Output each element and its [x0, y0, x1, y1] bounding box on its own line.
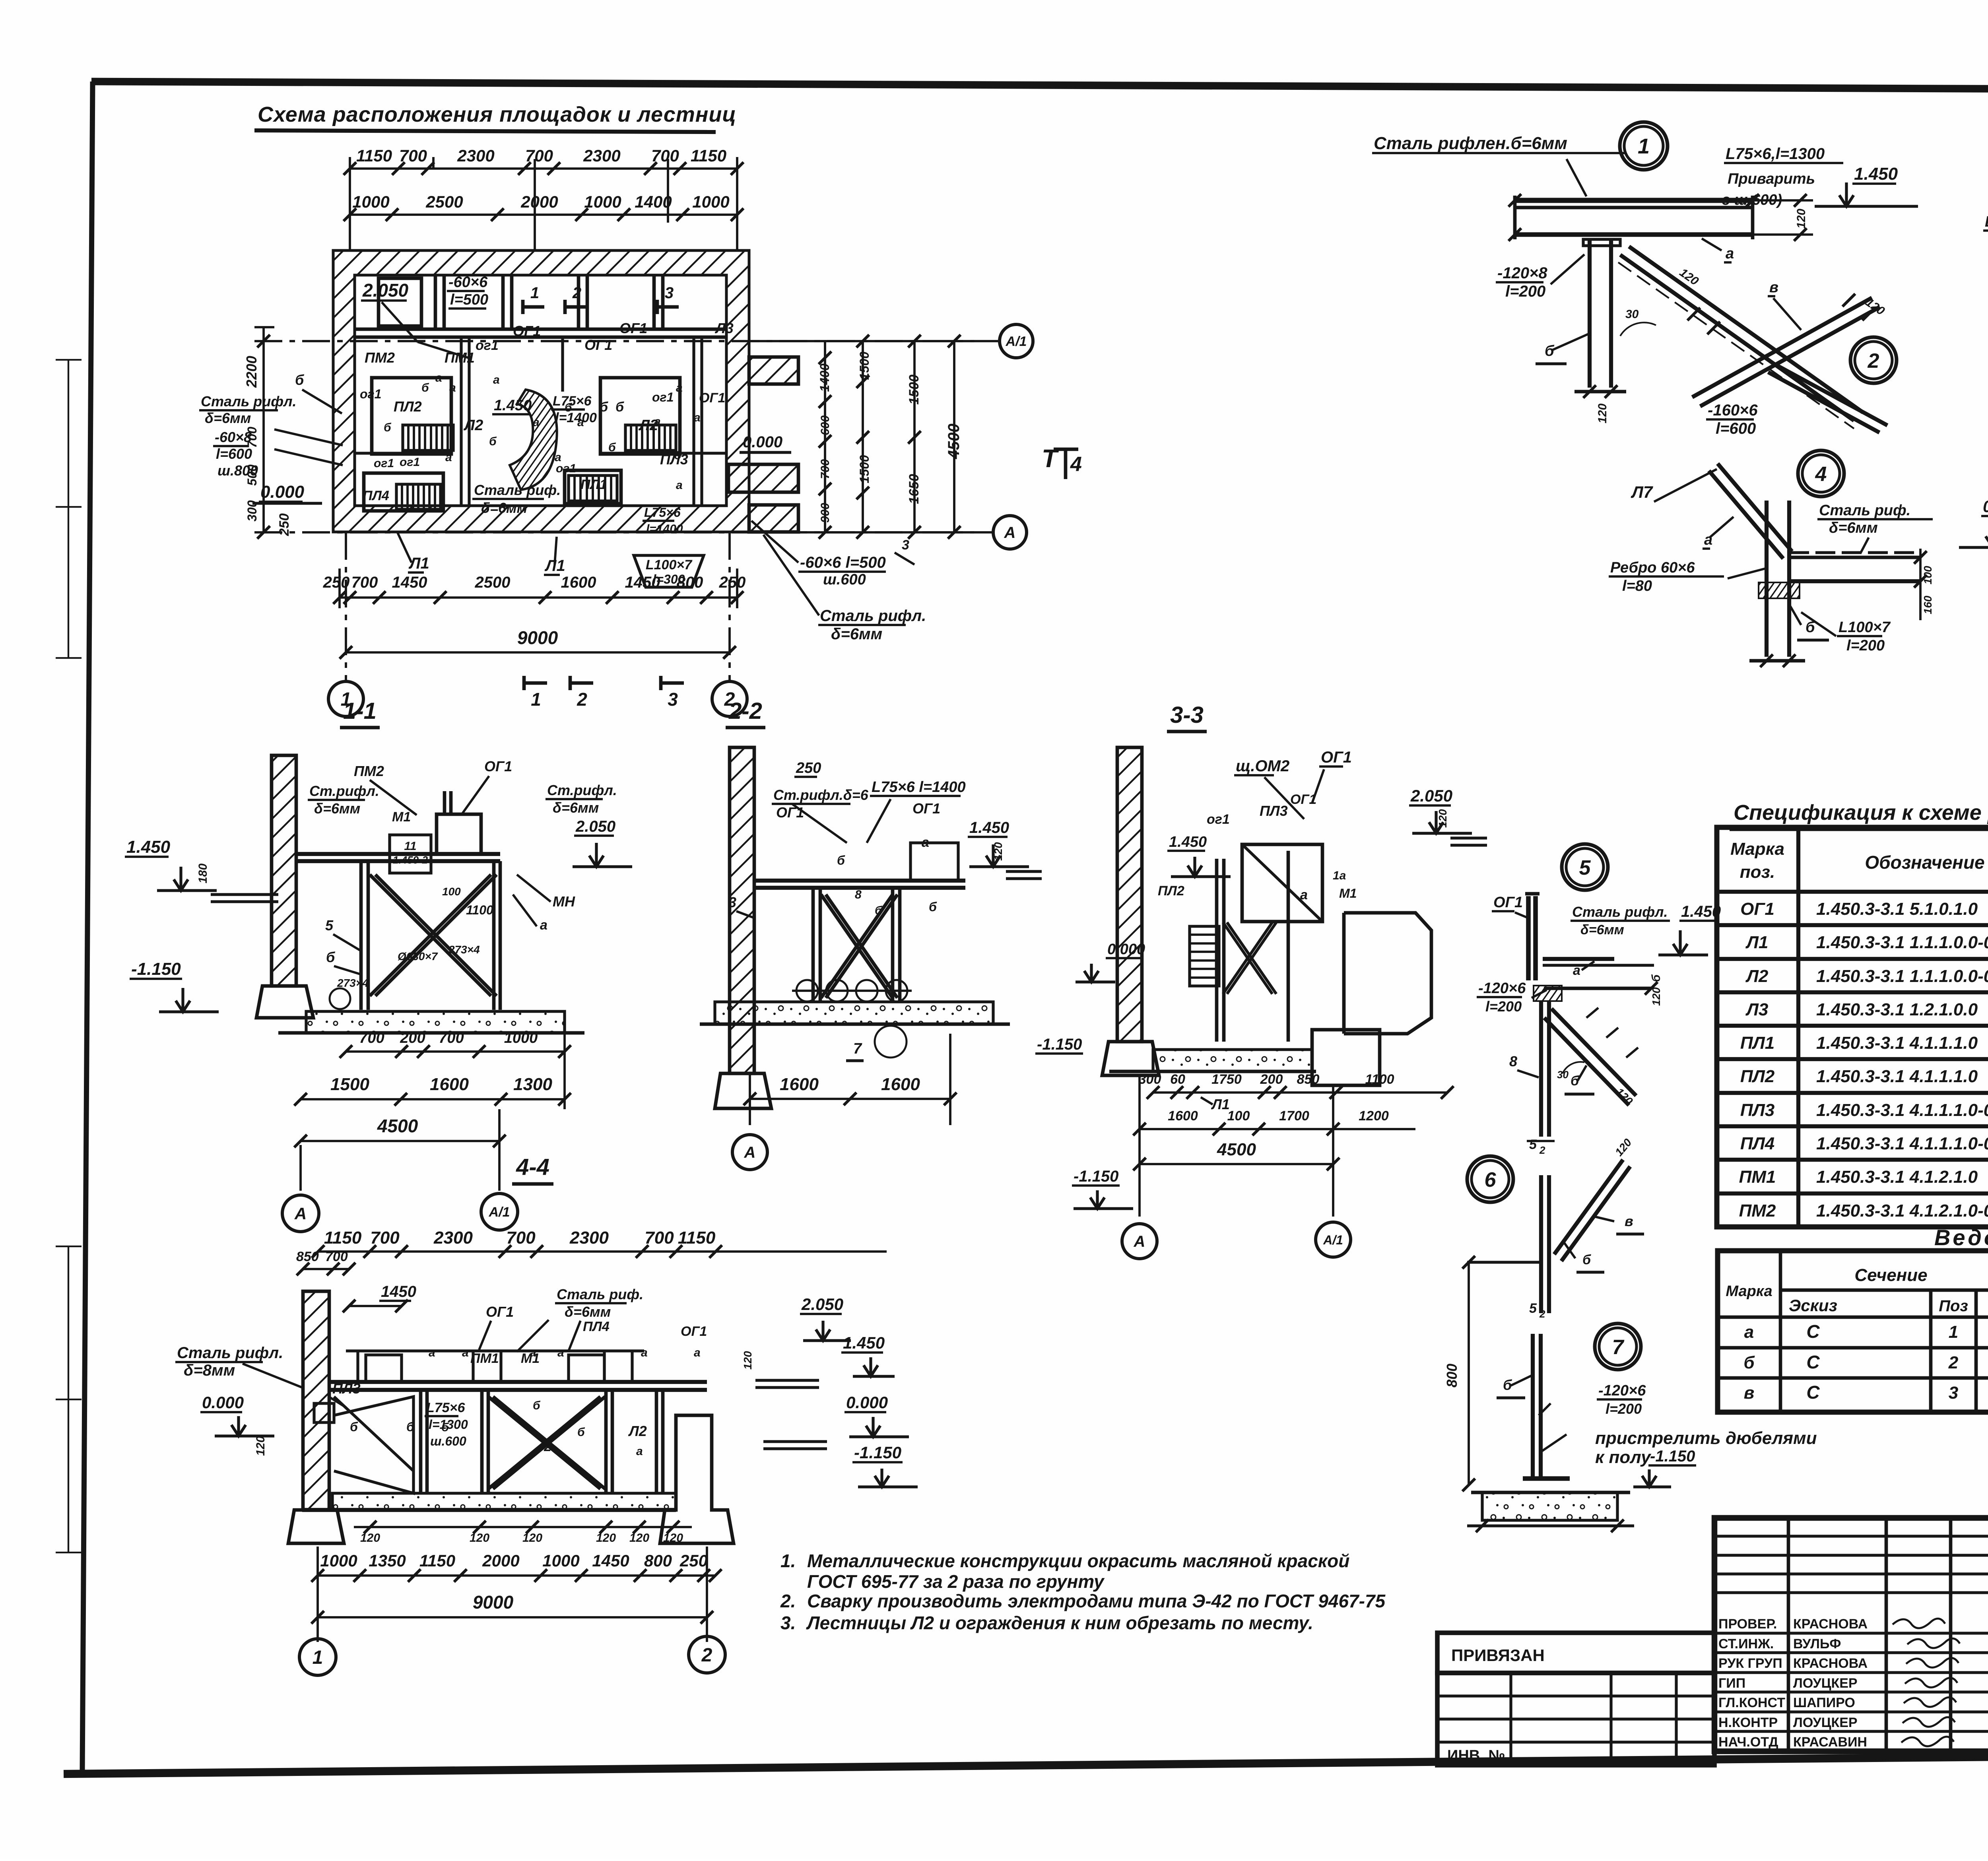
svg-text:-120×8: -120×8	[1497, 264, 1547, 282]
svg-text:2300: 2300	[569, 1228, 609, 1248]
svg-text:2000: 2000	[520, 192, 558, 211]
svg-text:2300: 2300	[457, 146, 494, 165]
svg-text:800: 800	[1444, 1364, 1460, 1388]
svg-text:2.050: 2.050	[575, 818, 615, 835]
svg-text:а: а	[1573, 963, 1580, 978]
svg-text:-1.150: -1.150	[1650, 1448, 1695, 1465]
svg-text:5: 5	[1529, 1301, 1537, 1316]
svg-text:а: а	[555, 451, 561, 464]
svg-text:1.: 1.	[780, 1551, 796, 1571]
svg-text:60: 60	[1170, 1072, 1185, 1087]
svg-text:а: а	[676, 381, 683, 394]
svg-text:3.: 3.	[780, 1613, 796, 1633]
svg-text:1а: 1а	[1333, 869, 1346, 882]
svg-text:ОГ1: ОГ1	[681, 1324, 707, 1339]
svg-text:L75×6: L75×6	[553, 394, 592, 409]
svg-text:l=500: l=500	[450, 291, 488, 308]
svg-text:Л3: Л3	[1745, 1000, 1769, 1019]
svg-text:1600: 1600	[881, 1075, 920, 1094]
svg-text:1: 1	[531, 689, 541, 710]
svg-text:Поз: Поз	[1939, 1297, 1968, 1315]
svg-text:1500: 1500	[907, 375, 922, 405]
svg-text:ОГ1: ОГ1	[1290, 792, 1316, 807]
svg-text:б: б	[421, 381, 429, 394]
svg-text:б: б	[350, 1420, 358, 1434]
svg-text:120: 120	[522, 1531, 542, 1545]
svg-text:-1.150: -1.150	[1074, 1168, 1118, 1185]
svg-text:а: а	[462, 1346, 469, 1359]
svg-text:пристрелить дюбелями: пристрелить дюбелями	[1595, 1428, 1817, 1448]
svg-text:НАЧ.ОТД: НАЧ.ОТД	[1718, 1735, 1778, 1750]
svg-text:9000: 9000	[473, 1592, 514, 1613]
svg-text:1.450.3-3.1 1.1.1.0.0-06: 1.450.3-3.1 1.1.1.0.0-06	[1816, 966, 1988, 986]
svg-text:ог1: ог1	[1207, 812, 1230, 827]
svg-text:2500: 2500	[475, 574, 511, 591]
svg-text:0.000: 0.000	[202, 1393, 244, 1412]
svg-text:30: 30	[1625, 308, 1639, 321]
svg-text:в: в	[1769, 279, 1778, 296]
svg-text:а: а	[577, 416, 584, 429]
svg-text:5: 5	[325, 917, 334, 933]
svg-text:М1: М1	[392, 809, 411, 825]
svg-text:Ст.рифл.: Ст.рифл.	[309, 783, 379, 799]
svg-text:к полу: к полу	[1595, 1448, 1652, 1467]
svg-text:Сталь рифл.: Сталь рифл.	[201, 393, 296, 409]
svg-text:Сталь риф.: Сталь риф.	[557, 1286, 643, 1302]
svg-text:2.050: 2.050	[801, 1295, 843, 1314]
svg-text:ПМ1: ПМ1	[470, 1351, 499, 1366]
svg-text:δ=6мм: δ=6мм	[831, 625, 882, 643]
svg-text:2.: 2.	[780, 1591, 796, 1611]
svg-text:КРАСНОВА: КРАСНОВА	[1793, 1616, 1868, 1632]
svg-text:1350: 1350	[369, 1551, 406, 1570]
svg-text:1.450.3-3.1 4.1.1.1.0: 1.450.3-3.1 4.1.1.1.0	[1816, 1067, 1978, 1086]
svg-text:700: 700	[819, 459, 832, 479]
svg-text:Сталь рифл.: Сталь рифл.	[820, 607, 926, 625]
svg-text:1.450.3-3.1 4.1.1.1.0-01: 1.450.3-3.1 4.1.1.1.0-01	[1816, 1100, 1988, 1120]
svg-text:700: 700	[359, 1030, 384, 1046]
svg-text:Ребро 60×6: Ребро 60×6	[1610, 559, 1695, 576]
svg-text:ПРИВЯЗАН: ПРИВЯЗАН	[1451, 1646, 1545, 1665]
svg-text:в: в	[1625, 1213, 1633, 1229]
svg-text:4-4: 4-4	[516, 1154, 549, 1180]
svg-text:а: а	[694, 411, 701, 424]
svg-text:2.050: 2.050	[362, 280, 409, 301]
svg-text:б: б	[1571, 1073, 1579, 1089]
svg-text:Лестницы Л2 и ограждения к ним: Лестницы Л2 и ограждения к ним обрезать …	[806, 1613, 1313, 1633]
svg-text:2300: 2300	[583, 146, 620, 165]
svg-text:1.450.3-3.1 4.1.1.1.0: 1.450.3-3.1 4.1.1.1.0	[1816, 1033, 1978, 1053]
svg-text:0.000: 0.000	[846, 1393, 888, 1412]
svg-text:700: 700	[399, 146, 427, 165]
svg-text:ОГ1: ОГ1	[513, 323, 541, 339]
svg-text:250: 250	[719, 574, 746, 591]
svg-text:30: 30	[1557, 1069, 1569, 1081]
svg-text:-160×6: -160×6	[1708, 402, 1758, 419]
svg-text:1450: 1450	[381, 1283, 416, 1300]
svg-text:ПМ2: ПМ2	[365, 349, 395, 366]
svg-text:δ=8мм: δ=8мм	[184, 1362, 235, 1379]
svg-text:а: а	[1726, 245, 1734, 262]
svg-text:700: 700	[325, 1249, 348, 1264]
svg-text:120: 120	[254, 1436, 267, 1456]
svg-text:Марка: Марка	[1726, 1283, 1772, 1300]
svg-text:а: а	[533, 416, 540, 429]
svg-text:1300: 1300	[513, 1075, 552, 1094]
svg-text:120: 120	[360, 1531, 380, 1545]
svg-text:1.450.3-3.1 4.1.2.1.0: 1.450.3-3.1 4.1.2.1.0	[1816, 1167, 1978, 1187]
svg-text:Сталь рифл.: Сталь рифл.	[177, 1344, 283, 1362]
svg-text:б: б	[384, 421, 392, 434]
svg-text:А/1: А/1	[489, 1205, 510, 1220]
svg-text:ПЛ4: ПЛ4	[1740, 1134, 1774, 1153]
svg-text:l=300: l=300	[653, 572, 685, 586]
svg-text:1: 1	[1638, 134, 1650, 158]
svg-text:б: б	[608, 441, 616, 454]
svg-text:Сталь рифл.: Сталь рифл.	[1572, 904, 1668, 920]
svg-text:С: С	[1806, 1321, 1820, 1342]
svg-text:Сечение: Сечение	[1854, 1265, 1927, 1285]
svg-text:850: 850	[296, 1249, 319, 1264]
svg-text:а: а	[449, 381, 456, 394]
svg-text:ОГ1: ОГ1	[584, 337, 612, 353]
svg-text:200: 200	[1260, 1072, 1283, 1087]
svg-text:А/1: А/1	[1006, 334, 1027, 349]
svg-text:3: 3	[668, 689, 678, 710]
svg-text:1700: 1700	[1279, 1108, 1309, 1124]
svg-text:Л3: Л3	[714, 320, 734, 336]
svg-text:1150: 1150	[678, 1228, 716, 1248]
svg-text:1000: 1000	[504, 1030, 538, 1046]
svg-text:Сталь рифлен.б=6мм: Сталь рифлен.б=6мм	[1374, 134, 1567, 153]
svg-text:Л7: Л7	[1631, 483, 1653, 501]
svg-text:б: б	[837, 853, 845, 867]
svg-text:1650: 1650	[907, 474, 922, 504]
svg-text:5: 5	[1579, 856, 1591, 879]
svg-text:КРАСАВИН: КРАСАВИН	[1793, 1735, 1867, 1750]
svg-text:120: 120	[629, 1531, 649, 1545]
svg-text:А: А	[1134, 1233, 1145, 1250]
svg-text:ПЛ3: ПЛ3	[1260, 803, 1288, 819]
svg-text:4500: 4500	[945, 424, 963, 460]
svg-text:а: а	[694, 1346, 701, 1359]
svg-text:100: 100	[1922, 566, 1934, 584]
svg-text:ОГ1: ОГ1	[776, 804, 804, 821]
svg-text:L100×7: L100×7	[1839, 619, 1891, 636]
svg-text:900: 900	[819, 503, 832, 523]
svg-text:М1: М1	[1339, 886, 1357, 900]
svg-text:МН: МН	[553, 893, 575, 910]
svg-text:ИНВ. №: ИНВ. №	[1447, 1747, 1505, 1764]
svg-text:б: б	[600, 400, 608, 415]
svg-text:L75×6 l=1400: L75×6 l=1400	[872, 779, 966, 796]
svg-text:б: б	[577, 1426, 585, 1439]
svg-text:1.450: 1.450	[969, 819, 1009, 836]
svg-text:1400: 1400	[635, 192, 672, 211]
svg-text:а: а	[676, 479, 683, 492]
svg-text:ГОСТ 695-77 за 2 раза по грунт: ГОСТ 695-77 за 2 раза по грунту	[807, 1571, 1105, 1592]
svg-text:Схема расположения площадок и: Схема расположения площадок и лестниц	[258, 103, 736, 126]
svg-text:δ=6мм: δ=6мм	[553, 800, 599, 816]
svg-text:800: 800	[644, 1551, 672, 1570]
svg-text:1.450: 1.450	[1169, 834, 1207, 850]
svg-text:ПЛ1: ПЛ1	[580, 477, 607, 492]
svg-text:Сталь риф.: Сталь риф.	[1819, 502, 1910, 519]
svg-text:а: а	[654, 415, 661, 428]
svg-text:3: 3	[665, 284, 674, 302]
svg-text:4500: 4500	[1217, 1140, 1256, 1159]
svg-text:250: 250	[796, 760, 821, 776]
svg-text:3-3: 3-3	[1170, 702, 1204, 728]
svg-text:1150: 1150	[324, 1228, 362, 1248]
svg-text:-60×6 l=500: -60×6 l=500	[800, 554, 886, 571]
svg-text:2300: 2300	[433, 1228, 473, 1248]
svg-text:а: а	[493, 373, 500, 386]
svg-text:1-1: 1-1	[343, 698, 377, 724]
svg-text:Ведомость элементов: Ведомость элементов	[1934, 1225, 1988, 1250]
svg-text:850: 850	[1297, 1072, 1320, 1087]
svg-text:Металлические конструкции окра: Металлические конструкции окрасить масля…	[807, 1551, 1349, 1571]
svg-text:-1.150: -1.150	[131, 959, 181, 979]
svg-text:б: б	[489, 435, 497, 448]
svg-text:2: 2	[701, 1645, 712, 1666]
svg-text:б: б	[441, 1421, 449, 1434]
svg-text:А/1: А/1	[1323, 1233, 1343, 1247]
svg-text:ПМ2: ПМ2	[1739, 1201, 1776, 1221]
svg-text:4: 4	[1070, 453, 1082, 476]
svg-text:ог1: ог1	[476, 338, 499, 353]
svg-text:0.000: 0.000	[1983, 497, 1988, 516]
svg-text:l=600: l=600	[1716, 420, 1756, 437]
svg-text:δ=6мм: δ=6мм	[481, 500, 527, 516]
svg-text:0.000: 0.000	[743, 433, 782, 451]
svg-text:l=1400: l=1400	[646, 522, 683, 536]
svg-text:l=80: l=80	[1622, 578, 1652, 594]
svg-text:Ст.рифл.δ=6: Ст.рифл.δ=6	[773, 787, 869, 803]
svg-text:l=200: l=200	[1505, 283, 1545, 300]
svg-text:180: 180	[196, 864, 210, 883]
svg-text:1.450.3-3.1 1.2.1.0.0: 1.450.3-3.1 1.2.1.0.0	[1816, 1000, 1978, 1019]
svg-text:Л2: Л2	[628, 1423, 647, 1439]
svg-text:б: б	[875, 904, 883, 917]
svg-text:1.459-2: 1.459-2	[393, 854, 428, 866]
svg-text:ПМ2: ПМ2	[354, 763, 384, 779]
svg-text:б: б	[533, 1399, 541, 1412]
svg-text:Л1: Л1	[408, 555, 429, 572]
svg-text:120: 120	[663, 1531, 683, 1545]
svg-text:l=200: l=200	[1846, 637, 1885, 654]
svg-text:2: 2	[544, 1439, 551, 1454]
svg-text:120: 120	[1437, 809, 1449, 828]
svg-text:3: 3	[902, 538, 909, 553]
svg-text:l=1400: l=1400	[555, 410, 597, 425]
svg-text:1500: 1500	[330, 1075, 369, 1094]
svg-text:ШАПИРО: ШАПИРО	[1793, 1695, 1855, 1710]
svg-text:2: 2	[1539, 1144, 1545, 1156]
svg-text:Обозначение: Обозначение	[1865, 852, 1984, 873]
svg-text:L75×6: L75×6	[644, 505, 681, 520]
svg-text:2200: 2200	[243, 356, 260, 388]
svg-text:1750: 1750	[1211, 1072, 1242, 1087]
svg-text:Ø630×7: Ø630×7	[398, 950, 438, 963]
svg-text:L100×7: L100×7	[1985, 213, 1988, 230]
svg-text:ВУЛЬФ: ВУЛЬФ	[1793, 1636, 1841, 1651]
svg-text:11: 11	[404, 840, 416, 853]
svg-text:120: 120	[596, 1531, 616, 1545]
svg-text:1100: 1100	[466, 903, 493, 917]
svg-text:9000: 9000	[517, 627, 558, 648]
svg-text:ОГ1: ОГ1	[1493, 894, 1523, 911]
svg-text:700: 700	[439, 1030, 464, 1046]
svg-text:Марка: Марка	[1730, 839, 1784, 859]
svg-text:Л2: Л2	[1745, 966, 1769, 986]
svg-text:2000: 2000	[482, 1551, 519, 1570]
svg-text:700: 700	[525, 146, 553, 165]
svg-text:Эскиз: Эскиз	[1789, 1296, 1837, 1315]
svg-text:ПЛ2: ПЛ2	[394, 398, 422, 415]
svg-text:1.450.3-3.1 4.1.1.1.0-01: 1.450.3-3.1 4.1.1.1.0-01	[1816, 1134, 1988, 1153]
svg-text:1: 1	[313, 1647, 323, 1668]
svg-text:1.450.3-3.1 5.1.0.1.0: 1.450.3-3.1 5.1.0.1.0	[1816, 899, 1978, 919]
svg-text:ПЛ2: ПЛ2	[1158, 883, 1184, 898]
svg-text:ОГ1: ОГ1	[486, 1304, 514, 1320]
svg-text:а: а	[641, 1346, 648, 1359]
svg-text:250: 250	[277, 513, 292, 536]
svg-text:1.450: 1.450	[126, 837, 171, 857]
svg-text:4500: 4500	[377, 1116, 418, 1136]
svg-text:Сварку производить электродами: Сварку производить электродами типа Э-42…	[807, 1591, 1386, 1611]
svg-text:Н.КОНТР: Н.КОНТР	[1718, 1715, 1778, 1730]
svg-text:l=200: l=200	[1485, 998, 1522, 1015]
svg-text:120: 120	[1650, 987, 1662, 1006]
svg-text:1: 1	[530, 284, 539, 302]
svg-text:а: а	[557, 1346, 564, 1359]
svg-text:А: А	[294, 1204, 307, 1223]
svg-text:1500: 1500	[857, 351, 872, 380]
svg-text:щ.ОМ2: щ.ОМ2	[1236, 757, 1289, 775]
svg-text:l=200: l=200	[1606, 1401, 1642, 1417]
svg-text:а: а	[429, 1346, 435, 1359]
svg-text:8: 8	[855, 888, 862, 901]
svg-text:L75×6,l=1300: L75×6,l=1300	[1726, 145, 1825, 163]
svg-text:2.050: 2.050	[1410, 786, 1452, 805]
svg-text:700: 700	[645, 1228, 674, 1248]
svg-text:250: 250	[323, 574, 350, 591]
svg-text:б: б	[615, 400, 624, 415]
svg-text:б: б	[1743, 1353, 1755, 1372]
svg-text:Л2: Л2	[463, 417, 483, 434]
svg-text:ш.600: ш.600	[823, 571, 866, 588]
svg-text:ПЛ4: ПЛ4	[363, 488, 389, 503]
svg-text:-60×6: -60×6	[448, 274, 488, 291]
svg-text:120: 120	[1596, 404, 1609, 423]
svg-text:Л1: Л1	[1211, 1096, 1230, 1112]
svg-text:б: б	[1545, 343, 1555, 359]
svg-text:ПРОВЕР.: ПРОВЕР.	[1718, 1616, 1777, 1632]
svg-text:ОГ1: ОГ1	[619, 320, 647, 336]
svg-text:ЛОУЦКЕР: ЛОУЦКЕР	[1793, 1715, 1858, 1730]
svg-text:Спецификация к схеме распол: Спецификация к схеме расположения площад…	[1734, 801, 1988, 825]
svg-text:1.450: 1.450	[494, 397, 532, 414]
svg-text:ЛОУЦКЕР: ЛОУЦКЕР	[1793, 1676, 1858, 1691]
svg-text:Приварить: Приварить	[1728, 171, 1815, 187]
svg-text:-1.150: -1.150	[1037, 1036, 1082, 1053]
svg-text:-120×6: -120×6	[1598, 1382, 1646, 1399]
svg-text:3: 3	[728, 894, 736, 910]
svg-text:ПМ1: ПМ1	[1739, 1167, 1776, 1187]
svg-text:2: 2	[572, 284, 581, 302]
svg-text:ОГ1: ОГ1	[912, 800, 940, 817]
svg-text:700: 700	[651, 146, 679, 165]
svg-text:б: б	[295, 372, 305, 388]
svg-text:0.000: 0.000	[1107, 941, 1145, 958]
svg-text:200: 200	[400, 1030, 425, 1046]
svg-text:7: 7	[853, 1040, 862, 1057]
svg-text:б: б	[929, 900, 937, 914]
svg-text:2-2: 2-2	[728, 698, 762, 724]
svg-text:РУК ГРУП: РУК ГРУП	[1718, 1656, 1782, 1671]
svg-text:2: 2	[577, 689, 587, 710]
svg-text:ог1: ог1	[400, 456, 420, 469]
svg-text:ГЛ.КОНСТ: ГЛ.КОНСТ	[1718, 1695, 1785, 1710]
svg-text:500: 500	[245, 464, 259, 486]
svg-text:-120×6: -120×6	[1478, 980, 1526, 997]
svg-text:4: 4	[1815, 463, 1827, 486]
svg-text:100: 100	[1227, 1108, 1250, 1124]
svg-text:250: 250	[679, 1551, 708, 1570]
svg-text:700: 700	[245, 427, 259, 448]
svg-text:1450: 1450	[592, 1551, 629, 1570]
svg-text:б: б	[565, 401, 573, 414]
svg-text:3: 3	[1949, 1383, 1958, 1403]
svg-text:273×4: 273×4	[337, 977, 369, 989]
svg-text:-1.150: -1.150	[854, 1443, 901, 1462]
svg-text:700: 700	[370, 1228, 400, 1248]
svg-text:ОГ1: ОГ1	[1321, 749, 1352, 766]
svg-text:δ=6мм: δ=6мм	[1580, 922, 1624, 937]
svg-text:120: 120	[742, 1351, 754, 1370]
svg-text:а: а	[1300, 887, 1308, 902]
svg-text:600: 600	[819, 415, 832, 435]
svg-text:а: а	[435, 371, 442, 384]
svg-text:160: 160	[1922, 596, 1934, 614]
svg-text:700: 700	[506, 1228, 536, 1248]
svg-text:КРАСНОВА: КРАСНОВА	[1793, 1656, 1868, 1671]
svg-text:1150: 1150	[691, 146, 726, 165]
svg-text:1600: 1600	[561, 574, 596, 591]
svg-text:ОГ1: ОГ1	[484, 758, 512, 774]
svg-text:δ=6мм: δ=6мм	[1829, 520, 1878, 536]
svg-text:1150: 1150	[419, 1551, 455, 1570]
svg-text:а: а	[1704, 532, 1712, 548]
svg-text:1.450: 1.450	[843, 1333, 885, 1352]
svg-text:6: 6	[1485, 1168, 1497, 1192]
svg-text:ПЛ1: ПЛ1	[1740, 1033, 1774, 1053]
svg-text:а: а	[1744, 1322, 1754, 1342]
svg-text:L100×7: L100×7	[646, 557, 693, 572]
svg-text:2: 2	[1539, 1308, 1545, 1320]
svg-text:ПЛ3: ПЛ3	[1740, 1100, 1774, 1120]
svg-text:1500: 1500	[857, 455, 872, 483]
svg-text:300: 300	[245, 500, 259, 522]
svg-text:1.450: 1.450	[1854, 164, 1898, 184]
svg-text:1000: 1000	[542, 1551, 579, 1570]
svg-text:ГИП: ГИП	[1718, 1676, 1745, 1691]
svg-text:а: а	[445, 451, 452, 464]
svg-text:1: 1	[1949, 1322, 1958, 1342]
svg-text:1000: 1000	[352, 192, 389, 211]
svg-text:Ст.рифл.: Ст.рифл.	[547, 782, 617, 798]
